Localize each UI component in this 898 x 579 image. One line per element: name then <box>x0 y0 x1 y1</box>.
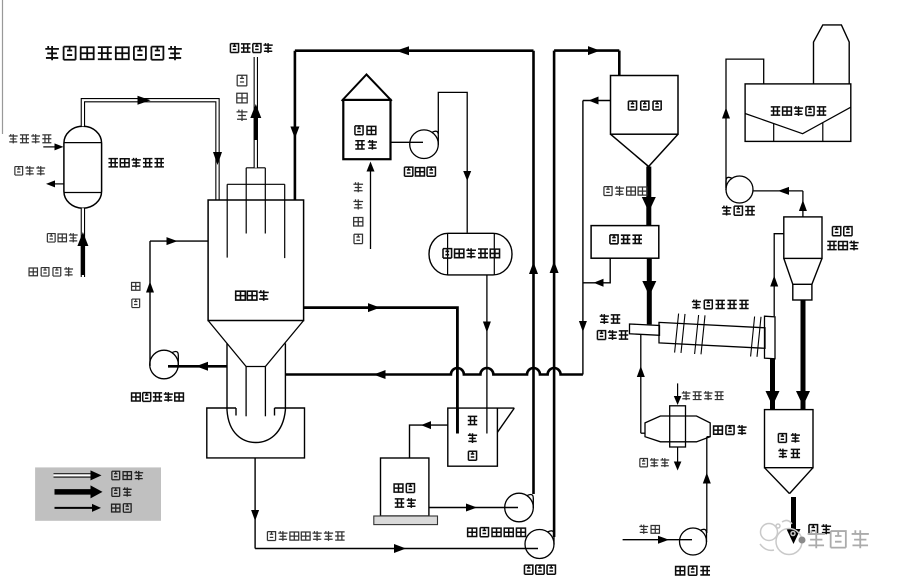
mother liquor return wavy line <box>285 368 583 375</box>
arrowhead <box>766 391 780 406</box>
tank 硫酸高位槽 <box>429 233 512 275</box>
label 螺旋输送机 <box>597 314 628 340</box>
fan 送风机 <box>680 528 707 555</box>
condensate arrow out of preheater <box>46 180 64 187</box>
saturator central tube <box>246 168 265 234</box>
arrowhead <box>796 391 810 406</box>
tank base <box>374 516 438 525</box>
overflow line to line C <box>583 97 611 105</box>
blower riser arrow <box>703 473 711 484</box>
line C down <box>582 101 584 375</box>
label 低压蒸汽 <box>9 134 52 143</box>
pump 母液循环泵 <box>150 350 179 379</box>
label 外购硫酸 vertical <box>353 182 363 243</box>
arrow into saturator left <box>167 237 178 245</box>
duster chimney <box>814 25 850 84</box>
discharge riser 母液 <box>150 241 208 366</box>
riser B arrow up <box>550 261 559 273</box>
gas pipe preheater to saturator <box>83 100 218 199</box>
legend label 粗煤气 <box>112 471 143 480</box>
spray line down into saturator <box>294 51 297 200</box>
watermark 焦化缘 <box>808 530 869 548</box>
spray line riser <box>532 51 535 494</box>
arrowhead <box>642 281 656 296</box>
label 煤气预热器 <box>108 158 163 168</box>
acid feed arrow 外购硫酸 <box>367 162 375 250</box>
label 冷凝水 <box>15 166 45 175</box>
tank 结晶槽 <box>611 76 679 167</box>
page border line <box>2 0 4 134</box>
drum band 1 <box>675 314 685 353</box>
label 母液储槽 <box>394 484 416 508</box>
line trickle tank to storage <box>410 421 448 458</box>
duster V water surface <box>745 107 851 134</box>
hopper 硫铵贮斗 <box>765 410 814 494</box>
line C arrow down <box>579 321 587 332</box>
label 旋风除尘器 <box>827 227 858 251</box>
legend box <box>35 467 161 520</box>
saturator outer tube and bowl <box>227 343 285 442</box>
label 排风机 <box>722 206 755 216</box>
label 低压蒸汽 heater <box>682 391 724 400</box>
drum product thick line <box>770 359 775 410</box>
riser arrow up <box>146 282 154 293</box>
spray down arrow <box>290 127 299 139</box>
label 结晶槽 <box>628 101 661 110</box>
tank 硫酸储槽 <box>342 75 392 160</box>
storage to spray pump <box>429 504 518 512</box>
cyclone outlet up <box>799 191 807 217</box>
blower riser <box>707 437 710 533</box>
gas pipe arrow right <box>138 96 151 105</box>
centrifuge drain <box>583 258 610 287</box>
spray line top horizontal <box>295 49 534 52</box>
line saturator to 滴流槽 <box>304 308 458 434</box>
label 硫酸高位槽 <box>443 248 500 258</box>
crystal pump riser line B <box>553 51 556 537</box>
duster 水浴除尘器 <box>745 84 851 141</box>
crystal slurry thick line <box>646 167 651 226</box>
label 硫铵结晶及母液 <box>267 531 344 541</box>
legend label 母液 <box>112 504 132 513</box>
hot air arrow up <box>637 366 645 377</box>
feed pipe inside tank <box>456 408 459 433</box>
label 空气 <box>639 525 659 534</box>
label 离心机 <box>610 235 642 244</box>
saturator funnel <box>208 321 304 367</box>
label 粗煤气 vertical <box>237 75 248 121</box>
pump 母液喷洒泵 <box>505 493 534 522</box>
air inlet arrow 空气 <box>623 536 692 544</box>
fan discharge duct <box>726 59 764 188</box>
label 母液喷洒泵 <box>468 528 526 537</box>
label 硫酸储槽 <box>355 126 377 150</box>
conveyor 螺旋输送机 <box>630 324 660 335</box>
tank 滴流槽 <box>448 408 515 466</box>
cyclone 旋风除尘器 <box>784 217 822 300</box>
fan 排风机 <box>726 176 753 203</box>
receiver outlet down <box>251 458 259 549</box>
hot air riser to drum <box>641 335 645 434</box>
saturator mid shell <box>227 184 285 258</box>
cyclone inlet arrow <box>770 276 778 287</box>
slurry arrowhead <box>642 197 656 212</box>
legend crude gas arrow <box>54 470 102 480</box>
label 冷凝水 heater <box>640 458 669 467</box>
label 送风机 <box>676 566 710 575</box>
label 结晶泵 <box>524 565 555 574</box>
label 硫铵结晶 <box>604 186 647 196</box>
wavy line arrow left <box>374 370 386 379</box>
vessel 饱和器 body <box>208 200 304 321</box>
duster internal dividers <box>774 123 823 142</box>
arrow right <box>368 303 380 312</box>
crude gas inlet arrow <box>77 232 88 275</box>
discharge arrow down <box>463 171 471 181</box>
suction line saturator to pump <box>168 362 227 371</box>
label 母液 vertical <box>132 282 140 307</box>
saturator receiver box <box>207 408 305 458</box>
crude gas inlet pipe 来自脱硫 <box>81 208 85 277</box>
saturator inner tube <box>246 367 265 417</box>
duct arrow up <box>722 108 730 119</box>
label 饱和器 <box>236 290 269 301</box>
label 水浴除尘器 <box>771 106 826 116</box>
feed drop into crystallizer <box>618 51 621 76</box>
label 母液循环泵 <box>132 392 184 402</box>
bottom line to crystal pump <box>255 544 538 553</box>
benzene offgas pipe 去洗脱苯 <box>254 57 258 168</box>
steam line into heater <box>674 383 682 405</box>
cyclone line from drum <box>774 234 784 317</box>
pump 硫酸泵 <box>410 130 439 159</box>
label 热风器 <box>714 425 747 435</box>
drum 滚筒干燥器 <box>659 322 765 348</box>
heater 热风器 <box>645 406 710 447</box>
spray top arrow left <box>396 46 409 55</box>
legend ammonium sulfate arrow <box>55 485 103 498</box>
legend mother liquor arrow <box>55 504 102 512</box>
suction house to pump <box>391 141 424 143</box>
drum end box <box>765 316 776 359</box>
riser B top horizontal <box>554 49 619 52</box>
label 硫铵 product <box>809 524 831 534</box>
acid line to trickle tank <box>486 275 488 434</box>
drum band 2 <box>695 315 705 354</box>
spray riser arrow <box>529 262 538 274</box>
label 硫酸泵 <box>404 167 435 176</box>
tank 母液储槽 <box>381 458 429 516</box>
vessel 煤气预热器 <box>64 126 102 208</box>
label 去洗脱苯 <box>230 43 272 53</box>
benzene offgas arrow <box>250 104 261 140</box>
condensate line <box>674 447 682 471</box>
label 来自脱硫 <box>29 267 73 276</box>
acid pump discharge <box>438 92 467 232</box>
steam arrow into preheater <box>43 143 63 150</box>
crystal to conveyor thick line <box>647 258 652 324</box>
legend label 硫铵 <box>112 487 132 496</box>
arrow right to crystallizer <box>588 46 600 55</box>
label 硫铵贮斗 <box>778 433 800 458</box>
pump 结晶泵 <box>525 530 554 559</box>
label 粗煤气 left <box>47 233 77 242</box>
product arrow out <box>787 497 801 544</box>
machine 离心机 <box>591 226 659 259</box>
gas pipe arrow down <box>213 152 222 165</box>
label 滚筒干燥器 <box>692 300 749 310</box>
acid line arrow <box>483 322 491 333</box>
drum band 3 <box>751 317 761 357</box>
cyclone to fan line <box>753 187 803 195</box>
cyclone dust thick line <box>801 300 806 410</box>
title 焦化硫铵工艺流程 <box>45 46 182 60</box>
label 滴流槽 vertical <box>468 416 477 460</box>
watermark icon <box>760 520 806 554</box>
